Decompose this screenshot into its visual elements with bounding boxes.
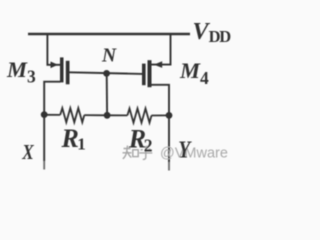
svg-text:R1: R1: [61, 124, 86, 154]
wire M3 source riser: [47, 34, 60, 65]
wire M4 source riser: [152, 34, 171, 65]
wire gate line M3-N-M4: [70, 72, 143, 74]
watermark glyph zhi: [123, 146, 139, 159]
transistor M3 channel bar: [60, 57, 64, 82]
node X junction dot: [41, 111, 48, 118]
node Y junction dot: [166, 112, 173, 119]
svg-text:M4: M4: [179, 58, 209, 88]
svg-text:X: X: [21, 140, 34, 164]
VDD rail: [28, 33, 190, 36]
node N junction dot: [103, 70, 110, 77]
wire X dot to R1: [44, 114, 60, 116]
resistor R1: [60, 108, 84, 122]
wire node Y column: [168, 115, 170, 162]
watermark glyph hu: [139, 146, 152, 159]
wire M3 drain to node X: [44, 82, 60, 115]
wire M4 drain to node Y: [152, 85, 170, 116]
transistor M4 source arrow: [154, 61, 162, 68]
resistor R2: [127, 109, 151, 123]
transistor M4 channel bar: [148, 60, 152, 87]
svg-text:VDD: VDD: [193, 19, 232, 46]
svg-text:N: N: [101, 46, 117, 67]
wire N drop to resistor row: [106, 73, 108, 115]
transistor M4 gate bar: [142, 64, 146, 86]
svg-text:@VMware: @VMware: [160, 146, 228, 162]
wire R1 to center dot: [84, 114, 107, 116]
transistor M3 gate bar: [66, 61, 70, 85]
svg-text:R2: R2: [128, 125, 153, 156]
wire R2 to Y dot: [151, 114, 169, 116]
wire center dot to R2: [107, 114, 127, 116]
junction dot center of resistor row: [104, 112, 111, 119]
transistor M3 source arrow: [51, 62, 59, 69]
svg-text:Y: Y: [178, 137, 192, 163]
svg-text:M3: M3: [6, 57, 36, 87]
wire node X column: [43, 115, 45, 161]
